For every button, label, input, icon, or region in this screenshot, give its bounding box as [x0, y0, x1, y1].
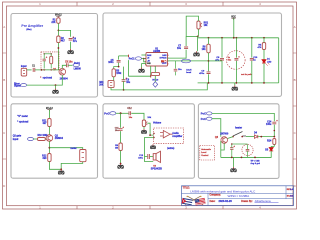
svg-text:22K: 22K	[51, 22, 56, 24]
wire bypass loop	[129, 60, 151, 76]
wire vcc stem	[233, 18, 235, 38]
ground under C4	[68, 49, 74, 54]
dashed circle C13	[242, 144, 253, 155]
wire rail to R6	[208, 38, 210, 44]
wire C5 top	[118, 56, 120, 60]
node junction left chain	[120, 112, 122, 114]
wire gain loop top	[185, 36, 187, 46]
dashed circle not in pcb	[227, 51, 246, 70]
svg-text:100u: 100u	[138, 158, 143, 160]
wire J2 to bottom rail	[111, 88, 124, 90]
wire port to R10	[34, 138, 38, 140]
dashed ALC box	[200, 146, 215, 161]
pot RV1	[197, 21, 200, 29]
wire pot loop	[186, 16, 198, 36]
capacitor C13	[246, 149, 250, 151]
wire output continue right	[209, 60, 223, 62]
ic U1 LM386	[146, 53, 168, 67]
resistor R8 in dashed box	[50, 56, 53, 64]
svg-text:10uH: 10uH	[186, 69, 192, 71]
resistor R6	[207, 44, 210, 53]
right edge drop	[278, 38, 280, 83]
wire R6 to output junction	[208, 53, 210, 72]
svg-text:B: B	[294, 78, 296, 82]
wire Q3 emitter down	[221, 143, 224, 150]
ground box3	[58, 169, 64, 174]
wire pot bottom	[198, 29, 200, 36]
wire R10 to base	[44, 138, 47, 140]
wire R1 to R2	[57, 23, 59, 36]
port PoC1 out	[73, 63, 79, 66]
wire port to IC pin	[141, 58, 146, 60]
wire R5 to LED	[263, 50, 265, 61]
wire wiper to amp	[147, 123, 153, 135]
wire C4 to ground	[70, 42, 72, 49]
transistor Q2	[46, 135, 53, 142]
wire branch to C4	[58, 30, 70, 36]
bottom rail junctions	[208, 82, 210, 84]
wire port1 to C14	[212, 113, 274, 121]
capacitor C8 column	[221, 38, 223, 58]
ferrite bead label	[181, 59, 190, 63]
wire switch to D4	[246, 136, 254, 138]
capacitor C12	[129, 111, 131, 115]
switch S1	[233, 132, 246, 137]
svg-text:10u: 10u	[115, 130, 119, 132]
capacitor C14	[272, 122, 276, 124]
svg-text:LM386: LM386	[153, 51, 161, 53]
wire left chain down	[120, 113, 122, 128]
node junction ground box3	[60, 168, 62, 170]
svg-text:Riser: Riser	[14, 83, 20, 85]
diode D4	[254, 135, 257, 138]
led D5	[269, 148, 273, 151]
capacitor C10 column	[251, 38, 253, 58]
resistor R3	[112, 69, 115, 77]
wire C14 down	[273, 125, 275, 137]
node stub red	[128, 55, 130, 58]
wire input node	[119, 55, 129, 57]
ground box5	[231, 167, 237, 172]
wire riser port to emitter	[27, 75, 63, 85]
pot volume	[142, 120, 145, 127]
sheet border outer frame	[3, 2, 297, 209]
node junction output zobel	[208, 60, 210, 62]
svg-text:MIC: MIC	[99, 82, 104, 84]
wire R11 to Q2	[48, 127, 50, 135]
svg-text:PoC1: PoC1	[129, 59, 136, 61]
capacitor C3 output	[67, 63, 69, 67]
speaker U3	[153, 151, 160, 162]
capacitor C11	[119, 129, 123, 131]
wire left column down	[220, 141, 222, 157]
resistor R7 below IC	[151, 72, 159, 75]
wire pot bottom stub	[186, 35, 197, 37]
wire mid taps	[232, 143, 248, 145]
wire D5 to bottom rail	[221, 151, 271, 157]
svg-text:Pre Amplifier: Pre Amplifier	[21, 24, 43, 28]
node junction pin2	[143, 58, 145, 60]
ground under volume pot	[141, 129, 146, 134]
wire pin3 drop	[144, 59, 146, 62]
wire LED down	[263, 63, 265, 83]
capacitor C5	[117, 60, 121, 62]
wire amp output loop	[145, 138, 154, 162]
svg-text:W3SC / KU9BA: W3SC / KU9BA	[228, 194, 251, 198]
svg-text:RV1: RV1	[204, 23, 209, 25]
svg-text:bead: bead	[186, 72, 192, 74]
connector meter M1	[80, 150, 86, 162]
node dots in dashed box	[44, 53, 45, 54]
wire ground stem box5	[233, 157, 235, 167]
node junction ground stem	[55, 84, 57, 86]
ic pin end dots	[145, 54, 146, 55]
wire pot node to ground	[197, 36, 199, 51]
box Pre Amplifier	[11, 14, 98, 98]
node junction C5 bottom	[118, 66, 120, 68]
wire cap to speaker	[150, 156, 153, 158]
node junction pot	[197, 36, 199, 38]
svg-text:Signal: Signal	[14, 86, 21, 88]
svg-text:film: film	[228, 60, 232, 62]
wire power to R11	[48, 110, 50, 119]
resistor R10	[38, 138, 46, 141]
capacitor C6b bypass	[175, 61, 177, 69]
rail dots box5	[231, 157, 233, 159]
wire C6 bottom to rail	[123, 81, 125, 90]
svg-text:*: *	[40, 77, 41, 80]
wire port to junction	[116, 112, 129, 114]
svg-text:C12: C12	[127, 108, 132, 110]
wire C7 to pin8	[168, 50, 187, 59]
connector J1 input jack	[21, 68, 27, 76]
wire C9 to rail	[208, 74, 210, 83]
node dot amp input	[149, 134, 151, 136]
ground below pot	[194, 51, 200, 56]
ground amp module	[150, 144, 155, 149]
wire pin5 output	[168, 60, 209, 62]
svg-text:LED: LED	[267, 61, 272, 63]
amp pin dots	[153, 133, 154, 134]
frame column ticks	[77, 2, 223, 209]
wire C11 to R9	[120, 131, 122, 143]
amp module symbol	[160, 131, 173, 138]
capacitor C9	[207, 72, 211, 74]
resistor R9	[119, 143, 122, 151]
wire pot bottom to ground	[143, 127, 145, 130]
wire ground stem box2	[234, 83, 236, 86]
transistor Q3	[221, 137, 228, 144]
wire J1 to C1	[27, 69, 32, 71]
svg-text:R11: R11	[42, 120, 47, 122]
svg-text:10u: 10u	[126, 82, 131, 84]
svg-text:LM386 with enhanced gain and f: LM386 with enhanced gain and filtering p…	[190, 189, 256, 193]
wire D4 to node	[258, 136, 274, 138]
wire R7 top	[154, 66, 156, 72]
wire ground stem	[55, 85, 57, 88]
svg-text:150k: 150k	[116, 73, 122, 75]
wire IC gnd pin to ground	[141, 64, 143, 68]
wire C1 to Q1 base	[35, 69, 59, 71]
resistor R2	[57, 36, 60, 43]
port q2 gate	[28, 137, 34, 140]
wire C6 top	[123, 67, 125, 80]
ground bottom box1	[53, 89, 59, 94]
bottom rail left section	[124, 83, 208, 90]
box audio output	[103, 104, 194, 178]
crossed flags	[182, 196, 206, 206]
svg-text:ring & gnd: ring & gnd	[250, 163, 260, 165]
node junction C1 right	[41, 69, 43, 71]
dashed feedback network box	[41, 52, 59, 70]
port riser signal	[21, 84, 27, 87]
vcc power bar	[231, 18, 235, 20]
wire emitter down	[48, 141, 50, 153]
wire speaker cap branch	[145, 156, 148, 158]
wire C5 bottom to R3	[114, 63, 119, 69]
bottom rail right section	[198, 82, 279, 84]
resistor R1	[57, 18, 60, 24]
svg-text:LM386: LM386	[74, 69, 82, 71]
svg-text:R10 100k: R10 100k	[37, 135, 48, 137]
wire meter bottom	[61, 162, 82, 170]
net testpoint diamond	[153, 82, 158, 88]
svg-text:1M: 1M	[115, 147, 118, 149]
svg-text:10u: 10u	[177, 48, 182, 50]
title block outline	[182, 186, 294, 206]
top supply rail	[198, 37, 279, 39]
svg-text:Company:: Company:	[210, 195, 221, 197]
wire to meter	[49, 148, 82, 150]
node stub bypass	[150, 75, 152, 78]
box LM386 amplifier	[103, 13, 282, 96]
resistor R5	[262, 43, 265, 50]
transistor Q1	[59, 68, 66, 75]
node junction right column	[260, 136, 262, 138]
svg-text:Volume: Volume	[153, 123, 162, 125]
sheet border inner frame	[7, 6, 294, 206]
capacitor C4	[69, 39, 73, 41]
led D1	[262, 60, 266, 63]
capacitor C6	[122, 80, 126, 82]
node junction R2 bottom	[58, 47, 60, 49]
wire Q3 to switch	[228, 137, 234, 139]
title block dividers	[182, 186, 294, 206]
wire R12 to ground node	[49, 162, 61, 170]
capacitor film in circle	[235, 38, 237, 58]
resistor R12	[48, 154, 51, 162]
ground under IC	[139, 68, 145, 73]
svg-text:A: A	[294, 25, 296, 29]
ground box4 left	[118, 164, 124, 169]
capacitor C7 gain	[184, 47, 188, 49]
bottom rail box5	[221, 156, 271, 158]
svg-text:100n: 100n	[108, 62, 114, 64]
capacitor C2 in dashed box	[43, 59, 46, 61]
node junction meter tap	[49, 147, 51, 149]
svg-text:Level: Level	[201, 152, 207, 154]
svg-text:opcional: opcional	[43, 77, 53, 79]
wire port2 to Q3	[212, 119, 221, 137]
frame row ticks	[3, 53, 297, 159]
wire rail to R5	[263, 38, 265, 43]
ground bottom box2	[232, 85, 238, 90]
wire R14 to D5	[273, 145, 275, 147]
svg-text:* opcional: * opcional	[17, 122, 28, 124]
wire R2 to base node	[57, 43, 59, 70]
node dot ground box4 left	[120, 163, 122, 165]
svg-text:A: A	[3, 25, 5, 29]
svg-text:100u: 100u	[266, 124, 272, 126]
svg-text:(9kc): (9kc)	[26, 29, 31, 31]
wire R3 to J2	[113, 77, 115, 81]
svg-text:R12: R12	[42, 155, 47, 157]
svg-text:TITLE:: TITLE:	[183, 188, 190, 190]
svg-text:Drawn By:: Drawn By:	[241, 201, 253, 203]
capacitor speaker coupling	[148, 154, 150, 159]
rail junction dots	[208, 37, 210, 39]
svg-text:PoC1: PoC1	[74, 63, 81, 65]
node junction below R1	[58, 30, 60, 32]
resistor R14	[273, 139, 276, 145]
dashed audio amplifier box	[154, 128, 184, 143]
svg-text:C3 10u: C3 10u	[65, 61, 73, 63]
wire C12 to pot	[131, 113, 144, 120]
capacitor C1	[33, 68, 35, 72]
svg-text:B: B	[3, 78, 5, 82]
wire R7 to diamond	[154, 76, 156, 82]
resistor R11	[48, 119, 51, 127]
connector J2 mic jack	[108, 80, 114, 87]
svg-text:Vs: Vs	[164, 61, 166, 63]
svg-text:TIP = USB: TIP = USB	[250, 161, 260, 163]
svg-text:2N7000: 2N7000	[220, 134, 229, 136]
wire R9 to ground	[120, 151, 122, 164]
box S meter	[11, 104, 98, 178]
box heater control	[198, 104, 279, 179]
node junction C6 rail	[123, 89, 125, 91]
capacitor C15 electrolytic	[230, 148, 233, 150]
